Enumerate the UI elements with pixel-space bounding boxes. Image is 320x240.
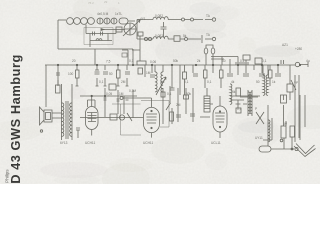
- svg-text:0,05: 0,05: [106, 92, 112, 96]
- svg-text:29: 29: [104, 0, 108, 4]
- svg-text:UY11: UY11: [255, 136, 263, 140]
- svg-text:76 2: 76 2: [88, 1, 94, 5]
- svg-text:1M: 1M: [119, 92, 124, 96]
- svg-text:0,3M: 0,3M: [129, 89, 136, 93]
- svg-text:1xTL: 1xTL: [115, 12, 122, 16]
- svg-text:1k: 1k: [272, 80, 276, 84]
- svg-text:4x0,5 M: 4x0,5 M: [97, 12, 109, 16]
- svg-text:4µ: 4µ: [294, 80, 298, 84]
- svg-text:P: P: [255, 107, 257, 111]
- svg-text:D 43 GWS Hamburg: D 43 GWS Hamburg: [8, 54, 23, 184]
- svg-text:W: W: [284, 122, 287, 126]
- svg-text:AZ1: AZ1: [282, 43, 288, 47]
- svg-text:+280: +280: [295, 47, 302, 51]
- svg-text:0,1: 0,1: [129, 59, 134, 63]
- svg-text:0,1: 0,1: [167, 92, 172, 96]
- svg-text:50k: 50k: [186, 92, 192, 96]
- svg-text:0,06: 0,06: [150, 60, 156, 64]
- svg-text:50: 50: [256, 80, 260, 84]
- svg-text:4k: 4k: [231, 80, 235, 84]
- svg-text:6Y13: 6Y13: [60, 141, 68, 145]
- svg-text:2M: 2M: [121, 80, 126, 84]
- svg-text:0,1: 0,1: [262, 59, 267, 63]
- svg-text:4µ: 4µ: [306, 59, 310, 63]
- svg-text:0,1: 0,1: [99, 80, 104, 84]
- svg-text:0,1: 0,1: [184, 80, 189, 84]
- svg-text:6k: 6k: [232, 90, 236, 94]
- svg-text:0,1: 0,1: [240, 59, 245, 63]
- svg-text:60: 60: [222, 59, 226, 63]
- svg-text:2M: 2M: [176, 103, 181, 107]
- svg-text:4Y1: 4Y1: [140, 17, 146, 21]
- svg-text:0,5: 0,5: [160, 80, 165, 84]
- svg-text:UCL11: UCL11: [211, 141, 221, 145]
- svg-text:5k: 5k: [183, 34, 187, 38]
- svg-text:UCH11: UCH11: [143, 141, 153, 145]
- svg-text:100: 100: [68, 72, 74, 76]
- svg-text:1M: 1M: [146, 71, 151, 75]
- svg-text:0,082: 0,082: [155, 34, 163, 38]
- svg-text:7,5: 7,5: [106, 60, 111, 64]
- svg-text:0,082: 0,082: [155, 14, 163, 18]
- svg-text:0,1: 0,1: [207, 80, 212, 84]
- svg-text:2k: 2k: [197, 59, 201, 63]
- svg-text:50: 50: [109, 72, 113, 76]
- svg-text:50k: 50k: [173, 59, 179, 63]
- svg-text:0,1: 0,1: [237, 107, 242, 111]
- svg-text:20: 20: [72, 59, 76, 63]
